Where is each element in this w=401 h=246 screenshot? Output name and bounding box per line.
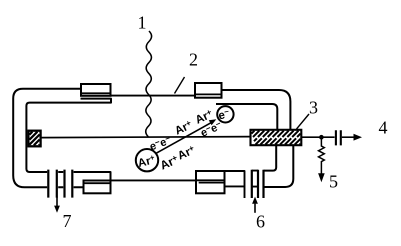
svg-text:4: 4 <box>379 118 388 138</box>
svg-text:5: 5 <box>329 172 338 192</box>
svg-text:3: 3 <box>309 98 318 118</box>
svg-text:7: 7 <box>63 211 72 231</box>
svg-text:2: 2 <box>189 50 198 70</box>
svg-text:6: 6 <box>256 212 265 232</box>
svg-text:1: 1 <box>138 13 147 33</box>
